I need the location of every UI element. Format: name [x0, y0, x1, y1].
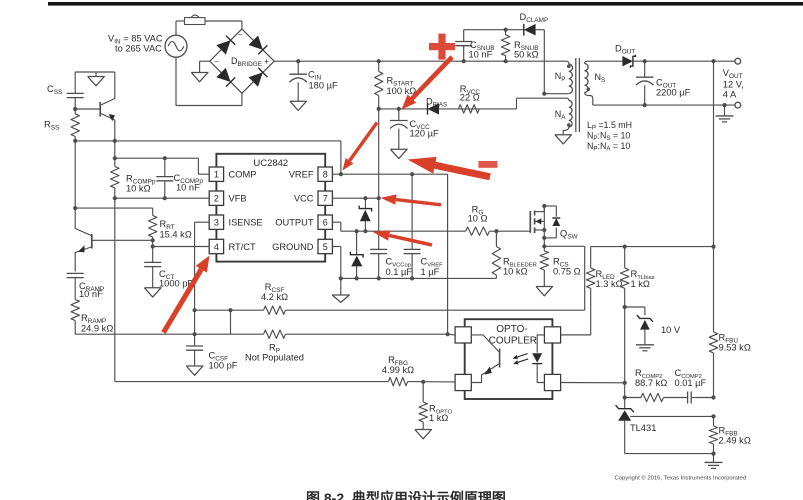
caption [306, 490, 506, 500]
diode Dout-lower [350, 231, 363, 278]
node out gnd tap [722, 103, 726, 107]
wire RTCT row [153, 240, 210, 246]
node VCC main [377, 196, 381, 200]
svg-text:6: 6 [323, 218, 328, 228]
svg-text:180 µF: 180 µF [309, 81, 338, 91]
svg-text:VREF: VREF [289, 170, 314, 180]
label CSS [47, 84, 62, 96]
svg-text:1 kΩ: 1 kΩ [429, 413, 448, 423]
red arrow B to VREF [343, 122, 379, 171]
svg-text:1: 1 [214, 170, 219, 180]
transistor QSS [75, 72, 115, 141]
svg-text:TL431: TL431 [630, 423, 656, 433]
capacitor CRAMP [67, 273, 84, 299]
ground RFBB [705, 454, 723, 469]
node RG RBLEEDER [494, 229, 498, 233]
svg-text:100 kΩ: 100 kΩ [387, 86, 417, 96]
opto phototransistor [471, 335, 499, 383]
node gnd cvref [410, 276, 414, 280]
wire DCLAMP to drain [536, 30, 545, 94]
svg-text:24.9 kΩ: 24.9 kΩ [81, 324, 113, 334]
svg-text:1 µF: 1 µF [421, 267, 440, 277]
ground CIN [290, 101, 307, 110]
label RBLEEDER [503, 257, 537, 277]
node comp2 right [711, 395, 715, 399]
svg-text:OUTPUT: OUTPUT [275, 218, 314, 228]
wire opto collector feed [448, 333, 456, 336]
node sense tap [542, 244, 546, 248]
capacitor CVCC [390, 109, 408, 149]
capacitor CCSF [186, 346, 203, 366]
wire comp2 row [625, 397, 714, 399]
wire rows jumper [230, 310, 232, 334]
IC pin labels [214, 170, 328, 252]
ground CCT [144, 288, 161, 297]
svg-text:4: 4 [214, 242, 219, 252]
label zener [661, 325, 681, 335]
resistor RTLbias [621, 247, 629, 409]
svg-text:9.53 kΩ: 9.53 kΩ [719, 343, 751, 353]
label DBIAS [426, 97, 447, 109]
resistor RRT [149, 208, 157, 240]
diode DOUT [622, 55, 635, 68]
label RCOMPp [126, 174, 156, 194]
svg-text:4.99 kΩ: 4.99 kΩ [382, 365, 414, 375]
resistor RP [264, 330, 286, 338]
svg-text:VCC: VCC [294, 194, 314, 204]
svg-text:5: 5 [323, 242, 328, 252]
node LED rail end [711, 245, 715, 249]
TL431 [616, 405, 634, 453]
optocoupler pin boxes [455, 327, 561, 391]
diode Dout-upper [359, 198, 371, 231]
transformer aux NA [563, 98, 572, 135]
node VREF [339, 172, 343, 176]
label DBRIDGE [231, 56, 262, 68]
svg-text:10 kΩ: 10 kΩ [503, 267, 528, 277]
node out diode upper [363, 229, 367, 233]
wire emitter drop [114, 141, 116, 158]
resistor RBLEEDER [492, 231, 500, 278]
node RSNUB tap [504, 59, 508, 63]
transformer primary NP [544, 61, 572, 93]
label RFBG [382, 355, 414, 375]
label CVREF [421, 257, 444, 278]
wire sense row1 [195, 309, 585, 311]
node CVCC tap [397, 107, 401, 111]
diode DCLAMP [524, 24, 536, 36]
node COUT bottom [643, 103, 647, 107]
svg-text:22 Ω: 22 Ω [460, 93, 480, 103]
wire sense row2 [75, 333, 447, 335]
node QSW drain [542, 204, 546, 208]
wire snubber top [464, 29, 524, 31]
label VIN [108, 34, 163, 54]
resistor RCOMPp [111, 158, 119, 198]
node VCC diode [363, 196, 367, 200]
resistor RSTART [375, 61, 383, 109]
wire VCC vertical [378, 109, 380, 279]
wire CSS top [75, 71, 115, 73]
label CSNUB [469, 40, 495, 59]
node opto cathode [623, 381, 627, 385]
label RG [468, 205, 488, 224]
svg-text:10 nF: 10 nF [469, 49, 493, 59]
svg-text:ISENSE: ISENSE [229, 218, 263, 228]
node ISENSE row1 [193, 308, 197, 312]
label NP [555, 71, 566, 83]
capacitor CVREF [404, 174, 421, 278]
label RP [245, 343, 304, 363]
label RSS [44, 120, 59, 132]
label VOUT [723, 68, 744, 99]
label RRAMP [81, 313, 113, 334]
node gnd cvccop [377, 276, 381, 280]
wire AC top [176, 21, 242, 35]
svg-text:10 nF: 10 nF [79, 289, 103, 299]
wire opto anode [561, 334, 591, 336]
opto light arrows [513, 354, 529, 365]
wire analog gnd row [341, 277, 497, 279]
svg-text:0.1 µF: 0.1 µF [386, 267, 413, 277]
svg-text:120 µF: 120 µF [410, 129, 439, 139]
resistor RFBG [384, 377, 456, 385]
node ISENSE row2 [193, 332, 197, 336]
svg-text:0.75 Ω: 0.75 Ω [553, 267, 581, 277]
AC source VIN [165, 35, 187, 57]
svg-text:88.7 kΩ: 88.7 kΩ [635, 378, 667, 388]
red arrow D to VCC [381, 194, 442, 206]
node zener tap [623, 305, 627, 309]
node RSTART tap [377, 59, 381, 63]
label CRAMP [79, 281, 104, 299]
node NP bottom [542, 92, 546, 96]
label DCLAMP [520, 12, 549, 24]
label TL431 [630, 423, 656, 433]
node CVREF top [410, 172, 414, 176]
svg-text:RT/CT: RT/CT [229, 242, 257, 252]
node RSS bottom [73, 139, 77, 143]
label CCOMPp [174, 173, 204, 193]
label NA [555, 109, 567, 121]
node snubber top [504, 28, 508, 32]
transistor Qramp [75, 208, 153, 271]
resistor RG [466, 227, 490, 235]
capacitor CCOMP2 [683, 392, 695, 404]
node ramp row left [73, 206, 77, 210]
svg-text:12 V,: 12 V, [723, 80, 744, 90]
svg-text:4.2 kΩ: 4.2 kΩ [261, 292, 288, 302]
page header rule [48, 2, 803, 6]
svg-text:0.01 µF: 0.01 µF [675, 378, 707, 388]
label ROPTO [429, 404, 453, 424]
wire out bottom rail [593, 104, 736, 106]
resistor RFBU [709, 247, 717, 398]
NS phasing dot [587, 88, 591, 92]
resistor RSS [71, 109, 79, 141]
wire VFB row [115, 197, 209, 199]
NA phasing dot [567, 123, 571, 127]
svg-text:8: 8 [323, 170, 328, 180]
node RSTART bottom [377, 107, 381, 111]
svg-text:10 nF: 10 nF [176, 183, 200, 193]
node RRT bottom [151, 238, 155, 242]
label RCOMP2 [635, 368, 667, 388]
wire VREF down [447, 174, 449, 334]
capacitor CSNUB [455, 30, 472, 62]
capacitor CCT [144, 247, 161, 288]
node QSS emitter [113, 139, 117, 143]
svg-text:15.4 kΩ: 15.4 kΩ [160, 230, 192, 240]
red arrow E to OUTPUT [373, 230, 433, 246]
red arrow F to RTCT [161, 256, 209, 334]
terminal VOUT plus [735, 58, 741, 64]
node QSW source [542, 228, 546, 232]
svg-text:Not Populated: Not Populated [245, 353, 304, 363]
ground CSS [88, 72, 105, 86]
resistor RCS [540, 246, 548, 286]
node RTLbias top [623, 245, 627, 249]
svg-text:50 kΩ: 50 kΩ [514, 49, 539, 59]
mosfet body diode [544, 206, 560, 238]
label RVCC [460, 84, 481, 103]
resistor RCSF [264, 306, 286, 314]
node jumper top [228, 308, 232, 312]
svg-text:+: + [264, 57, 269, 66]
wire TL431 ref [630, 415, 713, 417]
svg-text:OPTO-: OPTO- [496, 324, 527, 335]
svg-text:4 A: 4 A [723, 89, 737, 99]
NP phasing dot [567, 64, 571, 68]
wire opto cathode [561, 382, 625, 384]
wire SS to VREF [75, 141, 341, 174]
resistor ROPTO [419, 382, 427, 430]
diode DBIAS [428, 103, 440, 115]
IC pin boxes [209, 167, 332, 254]
node CSNUB tap [462, 59, 466, 63]
node CCOMPp top [163, 156, 167, 160]
svg-text:10 V: 10 V [661, 325, 681, 335]
node CIN tap [296, 59, 300, 63]
node divider mid [711, 414, 715, 418]
resistor RCOMP2 [641, 393, 664, 401]
wire zener branch [625, 307, 645, 315]
svg-text:100 pF: 100 pF [209, 361, 238, 371]
label QSW [560, 229, 578, 241]
label RCS [553, 257, 581, 277]
label RTLbias [631, 269, 655, 289]
resistor RVCC [459, 105, 480, 113]
node RCOMPp bottom [113, 196, 117, 200]
wire AC bottom [176, 57, 242, 105]
mosfet QSW [530, 206, 544, 246]
wire top rail [274, 60, 566, 62]
capacitor CCOMPp [156, 158, 173, 198]
resistor RSNUB [501, 30, 509, 62]
svg-text:3: 3 [214, 218, 219, 228]
wire VOUT feedback [713, 61, 715, 246]
label RFBB [719, 426, 751, 446]
ground IC [332, 278, 349, 302]
node RCOMPp top [113, 156, 117, 160]
wire VFB long [115, 198, 384, 381]
resistor RLED [561, 247, 595, 335]
svg-text:图 8-2. 典型应用设计示例原理图: 图 8-2. 典型应用设计示例原理图 [306, 490, 506, 500]
optocoupler box [465, 319, 553, 399]
bridge rectifier DBRIDGE [210, 29, 274, 93]
svg-text:2.49 kΩ: 2.49 kΩ [719, 436, 751, 446]
node body diode return [542, 236, 546, 240]
wire TL431 anode row [625, 453, 714, 455]
ground zener [636, 345, 654, 351]
bridge minus sign [215, 30, 244, 66]
transformer secondary NS [585, 61, 593, 105]
svg-text:2: 2 [214, 194, 219, 204]
wire ISENSE [195, 222, 210, 346]
wire left rail [74, 141, 76, 208]
opto LED [532, 335, 544, 383]
label RFBU [719, 333, 751, 353]
wire COMP row [115, 158, 209, 174]
wire bias row [379, 98, 567, 109]
capacitor CSS [67, 72, 84, 109]
wire VREF row [332, 173, 447, 175]
node RCOMP2 left [623, 395, 627, 399]
svg-text:7: 7 [323, 194, 328, 204]
zener D10V [637, 315, 653, 345]
label CCSF [209, 351, 238, 371]
node COUT top [643, 59, 647, 63]
svg-text:VFB: VFB [229, 194, 247, 204]
label DOUT [615, 44, 635, 56]
svg-text:UC2842: UC2842 [253, 158, 288, 169]
wire NS to DOUT [588, 60, 623, 62]
label COUT [656, 78, 691, 98]
red arrow C to CVCC gnd [408, 157, 491, 180]
fuse F1 [185, 15, 206, 24]
svg-text:2200 µF: 2200 µF [656, 88, 691, 98]
svg-text:GROUND: GROUND [272, 242, 314, 252]
resistor RRAMP [71, 300, 79, 335]
label UC2842 [253, 158, 288, 169]
label RSNUB [514, 40, 539, 59]
IC UC2842 box [216, 154, 325, 262]
svg-text:1.3 kΩ: 1.3 kΩ [596, 279, 623, 289]
wire GROUND pin [332, 247, 340, 279]
node gnd stub [339, 276, 343, 280]
capacitor CVCCop [370, 249, 387, 253]
label NS [595, 72, 606, 84]
terminal VOUT minus [735, 102, 741, 108]
wire OUTPUT row [332, 222, 530, 231]
wire ramp row [75, 207, 153, 209]
copyright [615, 475, 747, 482]
capacitor CIN [289, 61, 307, 101]
svg-text:1 kΩ: 1 kΩ [631, 279, 650, 289]
svg-text:Copyright © 2016, Texas Instru: Copyright © 2016, Texas Instruments Inco… [615, 475, 747, 482]
label CVCC [410, 119, 439, 139]
svg-text:to 265 VAC: to 265 VAC [115, 44, 162, 54]
red minus annotation [478, 161, 497, 168]
node CCOMPp bottom [163, 196, 167, 200]
red arrow A to CVCC [402, 55, 454, 109]
ground CCSF [186, 366, 203, 375]
label CVCCop [386, 257, 413, 278]
label CIN [308, 70, 338, 91]
label RCSF [261, 282, 288, 302]
label CCOMP2 [675, 368, 707, 388]
node VOUT feedback tap [711, 59, 715, 63]
label CCT [159, 269, 193, 289]
node gnd d1 [355, 276, 359, 280]
svg-text:10 Ω: 10 Ω [468, 214, 488, 224]
red plus annotation [429, 34, 455, 60]
label transformer params [587, 120, 632, 153]
transformer core [576, 58, 580, 132]
resistor RFBB [709, 416, 717, 453]
wire LED rail [591, 246, 714, 248]
node RFBB bottom [711, 452, 715, 456]
node out diode lower [355, 229, 359, 233]
label RRT [160, 219, 192, 240]
svg-text:10 kΩ: 10 kΩ [126, 184, 151, 194]
bridge plus sign [264, 57, 269, 66]
node VREF opto [446, 332, 450, 336]
wire out top rail [634, 60, 736, 62]
wire sense wrap [544, 246, 584, 310]
capacitor COUT [636, 61, 654, 105]
label optocoupler [489, 324, 537, 347]
wire VCC row [332, 197, 378, 199]
ground NA [555, 135, 572, 144]
node CCT top [151, 244, 155, 248]
svg-text:COUPLER: COUPLER [489, 336, 537, 347]
ground ROPTO [415, 430, 432, 439]
ground VOUT [716, 105, 734, 122]
label RSTART [387, 76, 417, 97]
node CSS bottom [73, 107, 77, 111]
ground RCS [536, 287, 553, 296]
label RLED [596, 269, 623, 289]
ground CVCC [391, 149, 408, 158]
bridge ground [191, 61, 210, 82]
node ROPTO top [421, 380, 425, 384]
svg-text:COMP: COMP [229, 170, 257, 180]
